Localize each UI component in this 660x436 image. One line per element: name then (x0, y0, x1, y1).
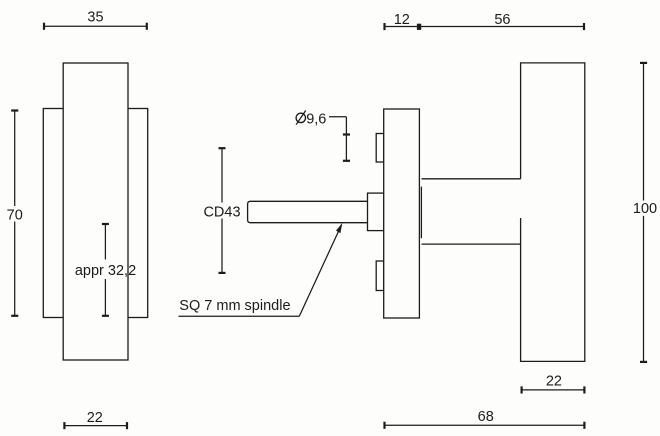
neck seam line (420, 187, 422, 239)
neck bottom edge (422, 243, 521, 245)
svg-text:100: 100 (633, 201, 657, 217)
svg-text:22: 22 (87, 410, 103, 426)
dimension 68 line (385, 424, 585, 426)
svg-text:70: 70 (7, 207, 23, 223)
fixing lug bottom (376, 261, 384, 291)
leader SQ 7 mm spindle (179, 315, 300, 317)
dimension 12 and 56 line (385, 26, 585, 28)
rose side view (384, 109, 420, 318)
diameter symbol of label 9,6 (296, 111, 306, 125)
dimension 22 left line (64, 425, 127, 427)
svg-text:56: 56 (494, 12, 510, 28)
svg-text:CD43: CD43 (203, 205, 240, 221)
dimension 100 line (643, 63, 645, 201)
dimension CD43 line (221, 148, 223, 202)
dimension appr 32,2 line (104, 224, 106, 260)
rose front view (43, 109, 147, 318)
dimension 70 line (14, 111, 16, 207)
leader arrowhead (336, 223, 342, 233)
neck top edge (422, 178, 521, 180)
svg-text:appr 32,2: appr 32,2 (75, 263, 136, 279)
grip side view (521, 63, 585, 362)
dimension 12/56 junction dot (417, 24, 421, 30)
dimension 35 line (44, 25, 147, 27)
dimension diameter 9,6 leader (329, 116, 346, 118)
svg-text:35: 35 (87, 9, 103, 25)
fixing lug top (376, 134, 384, 163)
spindle (248, 201, 368, 222)
svg-text:22: 22 (546, 374, 562, 390)
svg-text:SQ 7 mm spindle: SQ 7 mm spindle (179, 298, 290, 314)
spindle hub (368, 193, 384, 231)
dimension 22 right line (522, 389, 585, 391)
svg-text:9,6: 9,6 (306, 111, 326, 127)
svg-text:12: 12 (394, 12, 410, 28)
grip front view (63, 63, 128, 360)
svg-text:68: 68 (478, 409, 494, 425)
